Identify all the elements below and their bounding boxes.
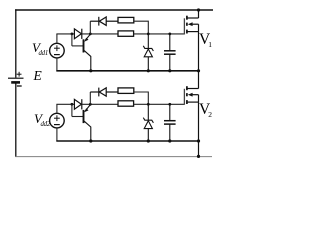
transistor Q2 emitter: [84, 105, 90, 113]
diode D1: [74, 29, 81, 39]
wire V1 source down: [198, 32, 200, 89]
node zener bottom bottom: [147, 139, 150, 142]
battery plus sign: [17, 72, 22, 77]
bottom return rail: [56, 140, 198, 142]
node zener bottom top: [147, 69, 150, 72]
battery minus sign: [17, 85, 22, 87]
wire D1 to R2: [82, 33, 118, 35]
wire base lead bottom: [72, 116, 83, 118]
bottom rail: [15, 156, 212, 158]
node mid junction: [197, 69, 200, 72]
zener VS1: [143, 34, 153, 71]
resistor R2: [118, 31, 134, 36]
transistor Q2 collector: [84, 121, 91, 141]
wire Vdd1 bottom stub: [56, 58, 58, 71]
transistor Q1 bar: [83, 39, 85, 52]
node cap bottom top: [168, 69, 171, 72]
top return rail: [56, 70, 198, 72]
node base tap bottom: [71, 103, 74, 106]
label E: [34, 69, 42, 83]
label V1: [199, 32, 212, 52]
resistor R3: [118, 88, 134, 94]
Vdd1 minus: [54, 54, 60, 56]
wire gate row bottom: [56, 103, 74, 105]
wire base lead: [72, 45, 83, 47]
label Vdd2: [34, 112, 50, 131]
left rail lower: [15, 82, 17, 157]
wire J1 up to D2 row: [89, 21, 91, 34]
wire R1 to corner: [134, 21, 149, 34]
Vdd1 source circle: [50, 43, 65, 58]
node J3 bottom: [89, 103, 92, 106]
wire J3 up to D4 row: [89, 92, 91, 105]
node cap tap top: [168, 33, 171, 36]
wire base branch vertical bottom: [71, 104, 73, 116]
node drain top rail: [197, 8, 200, 11]
left rail upper: [15, 9, 17, 77]
wire Vdd1 top stub: [56, 34, 58, 43]
wire gate row top: [56, 33, 74, 35]
wire base branch vertical: [71, 34, 73, 46]
wire R4 to gate V2: [133, 103, 184, 105]
Vdd1 plus: [54, 45, 60, 51]
node cap tap bottom: [168, 103, 171, 106]
capacitor C2: [164, 104, 176, 141]
node collector junction top: [89, 69, 92, 72]
label V2: [199, 102, 212, 122]
mosfet V2: [184, 86, 198, 105]
transistor Q2 bar: [83, 110, 85, 123]
node bottom rail junction: [197, 155, 200, 158]
node base tap top: [71, 33, 74, 36]
wire Vdd2 top stub: [56, 104, 58, 113]
top rail: [15, 9, 213, 11]
label Vdd1: [32, 41, 48, 60]
wire Vdd2 bottom stub: [56, 128, 58, 141]
diode D2: [90, 17, 118, 26]
Vdd2 source circle: [50, 113, 65, 128]
diode D3: [74, 99, 81, 109]
transistor Q1 collector: [84, 51, 91, 71]
node collector junction bottom: [89, 139, 92, 142]
resistor R1: [118, 17, 134, 23]
mosfet V1: [184, 16, 198, 35]
Vdd2 plus: [54, 115, 60, 121]
wire V1 drain: [198, 10, 200, 18]
node J2 top: [147, 33, 150, 36]
battery E short plate: [11, 81, 20, 84]
battery E long plate: [8, 77, 24, 79]
wire D3 to R4: [82, 103, 118, 105]
node cap bottom bottom: [168, 139, 171, 142]
wire V2 source down: [198, 102, 200, 156]
node J4 bottom: [147, 103, 150, 106]
Vdd2 minus: [54, 124, 60, 126]
capacitor C1: [164, 34, 176, 71]
node J1 top: [89, 33, 92, 36]
transistor Q1 emitter: [84, 34, 90, 42]
wire R2 to gate V1: [133, 33, 184, 35]
resistor R4: [118, 101, 134, 106]
wire R3 to corner: [134, 92, 149, 104]
zener VS2: [143, 104, 153, 141]
node return junction: [197, 139, 200, 142]
diode D4: [90, 88, 118, 97]
